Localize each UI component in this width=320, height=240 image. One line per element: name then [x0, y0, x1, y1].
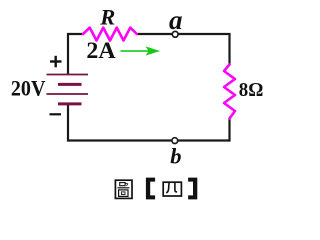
wire right lower segment: [68, 104, 230, 141]
node b: [172, 138, 178, 144]
svg-text:a: a: [169, 5, 183, 35]
wire top-left segment: [68, 34, 83, 75]
svg-text:8Ω: 8Ω: [239, 79, 264, 101]
battery plate 4 short: [58, 102, 82, 105]
node a: [172, 31, 178, 37]
minus sign: [50, 113, 62, 115]
caption right lenticular bracket: [188, 178, 197, 200]
svg-text:b: b: [170, 143, 181, 168]
plus sign: [50, 60, 62, 62]
resistor R zigzag: [83, 28, 137, 41]
caption left lenticular bracket: [146, 178, 155, 200]
resistor 8ohm zigzag: [224, 65, 235, 119]
wire top right of R to corner: [137, 34, 230, 65]
battery 20V plate 1 long: [47, 74, 89, 76]
caption glyph TU (figure): [115, 180, 132, 198]
battery plate 3 long: [47, 93, 89, 95]
svg-text:20V: 20V: [11, 76, 46, 100]
svg-text:2A: 2A: [86, 38, 115, 64]
svg-text:R: R: [99, 5, 115, 30]
caption glyph SI (four): [163, 182, 181, 196]
current arrow 2A: [121, 50, 150, 52]
battery plate 2 short: [58, 83, 82, 86]
